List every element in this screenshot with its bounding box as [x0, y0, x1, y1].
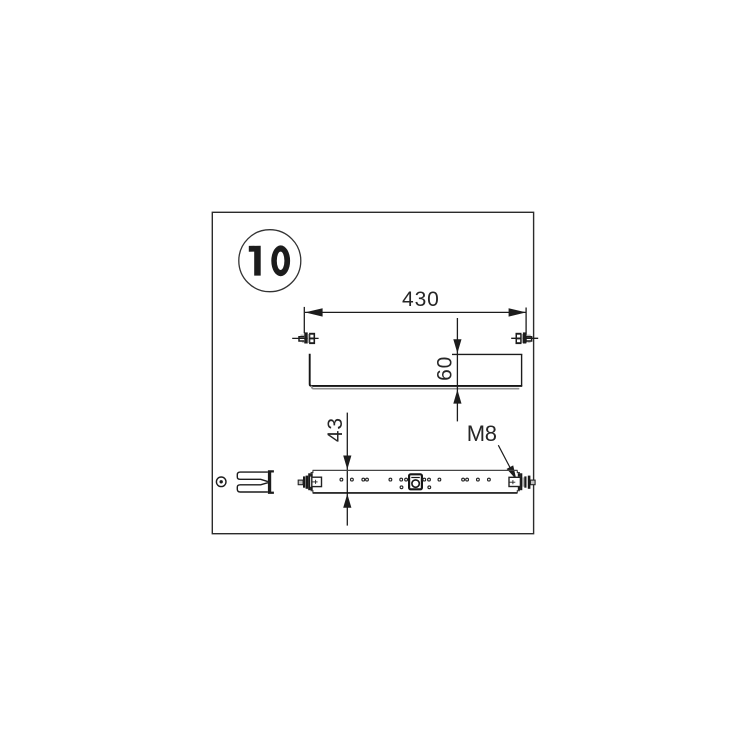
bracket top edge (right part) — [452, 353, 522, 355]
mounting rail top edge — [313, 469, 518, 471]
mounting rail bottom edge — [313, 492, 518, 494]
rivet nut icon: body upper prong — [237, 472, 268, 482]
43 lower arrowhead (points up) — [343, 494, 351, 508]
rail holes lower row — [400, 486, 403, 489]
left wall bolt — [292, 332, 318, 344]
430 dimension line — [305, 311, 526, 313]
430 left arrowhead — [305, 308, 323, 316]
rail left end step — [311, 470, 313, 493]
43 dimension line — [346, 413, 348, 526]
430 right extension line — [525, 308, 527, 343]
rail left end plate — [308, 473, 310, 490]
430 right arrowhead — [509, 308, 527, 316]
awning bracket profile: left edge and bottom — [310, 354, 523, 386]
60 dimension line — [456, 318, 458, 421]
rail right nut pocket — [509, 477, 520, 486]
rail left nut pocket — [312, 477, 322, 486]
step number 10: digit 0 — [271, 245, 290, 276]
step number 10: digit 1 — [249, 246, 261, 276]
step circle — [239, 230, 301, 292]
svg-text:M8: M8 — [467, 421, 497, 446]
60 upper arrowhead (points down) — [453, 339, 461, 353]
svg-text:43: 43 — [324, 417, 347, 442]
rail right end step — [517, 470, 520, 493]
60 lower arrowhead (points up) — [453, 390, 461, 404]
430 left extension line — [303, 307, 305, 333]
rail right end plate — [520, 473, 522, 490]
rail holes upper row — [340, 478, 490, 488]
M8 leader line — [498, 445, 510, 468]
rivet nut icon: flange — [268, 470, 274, 494]
rail right bolt — [522, 477, 524, 486]
M8 leader arrowhead — [507, 465, 517, 479]
43 upper arrowhead (points down) — [343, 456, 351, 470]
svg-text:60: 60 — [434, 356, 457, 381]
rivet nut icon: small circle with dot — [216, 477, 226, 487]
frame border — [212, 212, 533, 533]
rivet nut icon: body lower prong — [237, 483, 268, 492]
right wall bolt — [511, 332, 538, 344]
bracket bottom gray lip — [312, 387, 519, 389]
svg-text:430: 430 — [402, 288, 440, 311]
rail left bolt — [306, 477, 308, 486]
bracket right edge — [521, 354, 523, 386]
rail center clamp — [409, 474, 422, 489]
